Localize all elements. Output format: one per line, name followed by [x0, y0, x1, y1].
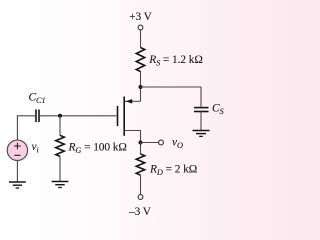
- svg-text:–3 V: –3 V: [128, 206, 152, 218]
- wire RS to source node: [140, 72, 142, 102]
- resistor RD: [136, 154, 144, 175]
- terminal -3V: [138, 195, 143, 200]
- channel line: [123, 97, 125, 136]
- node source (junction dot): [139, 85, 143, 89]
- wire drain node to vO terminal: [141, 142, 159, 144]
- wire drain node to RD: [140, 143, 142, 155]
- wire RG to ground: [59, 156, 61, 181]
- svg-text:CC1: CC1: [29, 92, 46, 106]
- svg-text:CS: CS: [212, 103, 225, 117]
- wire vi to ground: [16, 161, 18, 182]
- svg-text:+3 V: +3 V: [129, 11, 153, 23]
- terminal vO: [159, 140, 164, 145]
- wire source node to CS: [141, 87, 202, 107]
- wire gate node to RG: [59, 116, 61, 136]
- resistor RS: [136, 48, 144, 72]
- svg-text:RD = 2 kΩ: RD = 2 kΩ: [149, 163, 197, 177]
- ground (below vi): [9, 182, 26, 188]
- resistor RG: [56, 135, 64, 156]
- svg-text:RG = 100 kΩ: RG = 100 kΩ: [68, 141, 127, 155]
- wire CS to ground: [200, 112, 202, 131]
- gate bar: [117, 106, 119, 126]
- source lead (top): [125, 100, 141, 102]
- wire from +3V terminal to RS: [140, 30, 142, 48]
- wire RD to -3V terminal: [140, 175, 142, 195]
- transistor M1 (p-channel MOSFET): [118, 97, 141, 143]
- capacitor CC1: [36, 110, 39, 123]
- capacitor CS: [194, 108, 209, 112]
- wire gate: [40, 115, 117, 117]
- node gate/RG junction: [58, 114, 62, 118]
- wire vi to CC1: [17, 116, 35, 140]
- svg-text:vi: vi: [32, 141, 40, 155]
- source vi: [7, 140, 27, 160]
- svg-text:vO: vO: [172, 136, 183, 150]
- terminal +3V: [138, 25, 143, 30]
- source arrow: [126, 99, 132, 104]
- svg-text:RS = 1.2 kΩ: RS = 1.2 kΩ: [148, 54, 203, 68]
- drain lead (bottom): [125, 131, 141, 143]
- node drain (junction dot): [139, 141, 143, 145]
- ground (below CS): [193, 131, 210, 137]
- ground (below RG): [52, 182, 69, 188]
